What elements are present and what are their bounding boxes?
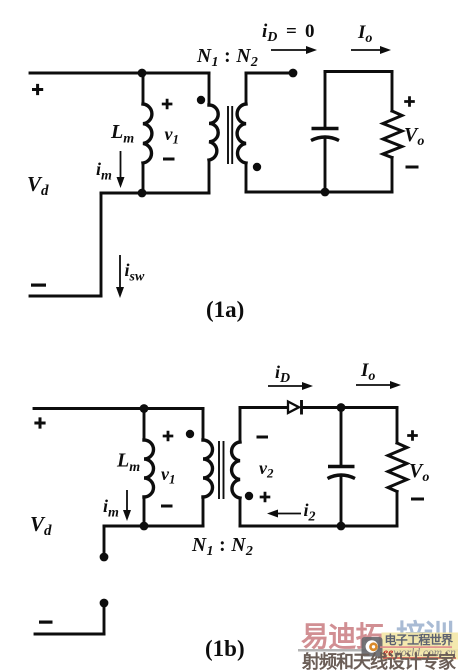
node: switch upper terminal (1b) xyxy=(100,553,109,562)
resistor load Vo (1b) zigzag xyxy=(388,443,407,492)
transformer core (1a) xyxy=(228,107,232,163)
svg-text:Vd: Vd xyxy=(27,172,49,199)
current arrow i_m (1b) xyxy=(123,490,131,521)
label: - terminal of Vd (1a) xyxy=(31,284,46,287)
label: + of v1 (1b) xyxy=(163,431,174,442)
svg-text:i2: i2 xyxy=(304,500,316,525)
wire: 1a capacitor branch upper xyxy=(324,72,327,129)
svg-text:Lm: Lm xyxy=(116,450,140,476)
wire: 1b secondary top rail to diode xyxy=(240,406,287,409)
label: + of v2 (1b) xyxy=(260,492,271,503)
wire: 1b diode to output top rail xyxy=(302,406,397,409)
wire: 1b Lm branch lower stub xyxy=(143,497,146,526)
diode D (1b) xyxy=(288,400,302,415)
svg-text:N1 : N2: N1 : N2 xyxy=(196,46,258,70)
wire: 1a secondary branch lower stub xyxy=(245,163,248,192)
node: junction bottom rail / capacitor (1a) xyxy=(321,188,330,197)
wire: 1b secondary branch lower stub xyxy=(239,498,242,526)
svg-text:Vd: Vd xyxy=(30,512,52,539)
transformer secondary winding N2 (1b) xyxy=(232,442,240,498)
node: junction top rail / Lm (1a) xyxy=(138,69,147,78)
svg-text:(1b): (1b) xyxy=(205,636,245,661)
current arrow i_m (1a) xyxy=(117,151,125,188)
wire: 1b primary branch upper stub xyxy=(202,409,205,441)
svg-text:isw: isw xyxy=(125,260,145,285)
label: + of Vo (1a) xyxy=(404,96,415,107)
wire: 1b capacitor branch upper xyxy=(340,408,343,467)
label: + terminal of Vd (1a) xyxy=(32,84,43,95)
svg-text:Vo: Vo xyxy=(409,460,429,485)
node: junction bottom rail / capacitor (1b) xyxy=(337,522,346,531)
transformer primary winding N1 (1a) xyxy=(209,105,218,160)
wire: 1a Lm branch lower stub xyxy=(142,163,145,193)
polarity dot secondary (1a) xyxy=(253,163,261,171)
node: open diode terminal (1a) xyxy=(289,69,298,78)
wire: 1a primary branch lower stub xyxy=(208,160,211,193)
svg-text:iD: iD xyxy=(262,21,277,45)
watermark yellow highlight xyxy=(382,633,458,660)
polarity dot secondary (1b) xyxy=(245,492,253,500)
svg-text:(1a): (1a) xyxy=(206,297,244,322)
label: - of Vo (1b) xyxy=(411,498,424,501)
label: - of v1 (1b) xyxy=(161,505,173,508)
label: + of Vo (1b) xyxy=(407,430,418,441)
label: + of v1 (1a) xyxy=(162,99,173,110)
svg-text:0: 0 xyxy=(305,21,315,42)
wire: 1a primary branch upper stub xyxy=(208,73,211,105)
label: - of Vo (1a) xyxy=(406,166,419,169)
wire: 1b secondary branch upper stub xyxy=(239,408,242,443)
svg-text:v1: v1 xyxy=(161,464,176,487)
svg-text:iD: iD xyxy=(275,362,290,386)
svg-text:=: = xyxy=(286,21,297,42)
wire: 1a resistor branch lower xyxy=(391,158,394,193)
wire: 1b bottom rail to source minus xyxy=(35,633,104,636)
wire: 1a Lm branch upper stub xyxy=(142,73,145,104)
svg-text:Vo: Vo xyxy=(404,124,424,149)
wire: 1b output loop bottom rail xyxy=(240,525,397,528)
node: junction bottom rail / Lm (1a) xyxy=(138,189,147,198)
polarity dot primary (1a) xyxy=(197,96,205,104)
svg-text:N1 : N2: N1 : N2 xyxy=(191,535,253,559)
watermark red underline of link xyxy=(383,657,456,658)
polarity dot primary (1b) xyxy=(186,430,194,438)
wire: 1a secondary top open wire to diode point xyxy=(246,72,292,75)
wire: 1a capacitor branch lower xyxy=(324,139,327,192)
label: - of v2 (1b) xyxy=(257,436,269,439)
wire: 1a bottom rail of primary loop xyxy=(101,192,209,195)
inductor Lm (1a) coil xyxy=(143,104,152,163)
svg-text:v1: v1 xyxy=(165,124,180,147)
transformer primary winding N1 (1b) xyxy=(203,440,213,497)
current arrow i_D (1a) xyxy=(271,46,317,54)
current arrow i_2 (1b) xyxy=(267,510,301,518)
wire: 1a output loop top rail xyxy=(325,70,392,73)
transformer secondary winding N2 (1a) xyxy=(237,104,246,163)
current arrow I_o (1a) xyxy=(351,46,391,54)
wire: 1a resistor branch upper xyxy=(391,72,394,112)
current arrow i_sw (1a) xyxy=(116,255,124,298)
current arrow I_o (1b) xyxy=(356,381,401,389)
node: junction top rail / capacitor (1b) xyxy=(337,403,346,412)
resistor load Vo (1a) zigzag xyxy=(383,111,402,158)
label: + terminal of Vd (1b) xyxy=(34,417,45,428)
capacitor C (1b) plates xyxy=(328,467,356,479)
wire: 1a secondary branch upper stub xyxy=(245,73,248,104)
wire: 1b capacitor branch lower xyxy=(340,477,343,526)
node: switch lower terminal (1b) xyxy=(100,599,109,608)
wire: 1a output loop bottom rail xyxy=(246,191,392,194)
svg-text:Io: Io xyxy=(357,22,372,46)
inductor Lm (1b) coil xyxy=(144,440,154,497)
wire: 1b top rail from source plus to primary xyxy=(34,407,203,410)
node: junction bottom rail / Lm (1b) xyxy=(140,522,149,531)
wire: 1b bottom rail of primary loop xyxy=(104,525,203,528)
wire: 1a switch leg vertical xyxy=(100,193,103,296)
svg-text:电子工程世界: 电子工程世界 xyxy=(385,632,454,647)
wire: 1b primary branch lower stub xyxy=(202,497,205,526)
current arrow i_D (1b) xyxy=(268,382,313,390)
capacitor C (1a) plates xyxy=(311,129,339,141)
svg-text:射频和天线设计专家: 射频和天线设计专家 xyxy=(301,651,457,671)
svg-text:Lm: Lm xyxy=(110,121,134,147)
wire: 1a top rail from source plus to primary xyxy=(30,72,209,75)
wire: 1b open switch lower lead xyxy=(103,605,106,634)
transformer core (1b) xyxy=(219,442,224,498)
node: junction top rail / Lm (1b) xyxy=(140,404,149,413)
watermark grey underline xyxy=(298,649,458,652)
watermark salmon underline xyxy=(380,646,452,648)
svg-text:im: im xyxy=(96,159,112,184)
svg-text:im: im xyxy=(103,496,119,521)
wire: 1b resistor branch lower xyxy=(396,492,399,527)
label: - of v1 (1a) xyxy=(163,158,175,161)
svg-text:v2: v2 xyxy=(259,458,274,481)
wire: 1b resistor branch upper xyxy=(396,408,399,444)
label: - terminal of Vd (1b) xyxy=(39,621,53,624)
wire: 1b Lm branch upper stub xyxy=(143,409,146,441)
watermark logo block xyxy=(362,637,383,657)
wire: 1a bottom rail to source minus xyxy=(30,295,101,298)
svg-text:Io: Io xyxy=(360,360,375,384)
wire: 1b open switch upper lead xyxy=(103,526,106,554)
